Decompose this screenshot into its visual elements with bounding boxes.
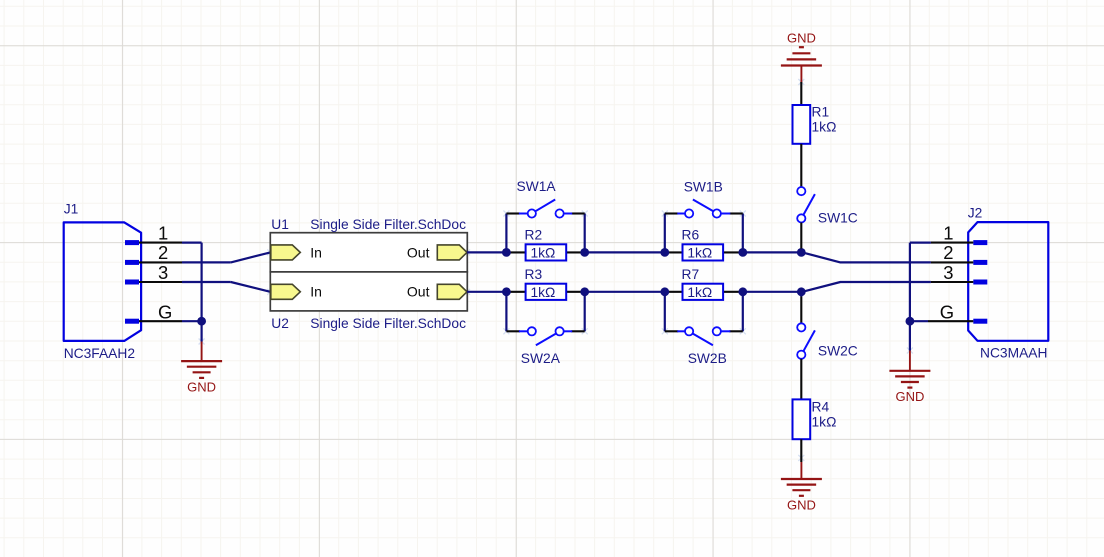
svg-text:In: In (310, 284, 322, 300)
svg-text:1: 1 (158, 222, 168, 243)
ground GND bottom at R4 (781, 462, 822, 512)
svg-text:SW2A: SW2A (521, 351, 561, 366)
svg-text:GND: GND (187, 379, 216, 394)
resistor R3 1k (506, 267, 584, 300)
sheet entry U1 In port (271, 244, 322, 260)
svg-text:1kΩ: 1kΩ (812, 415, 837, 430)
svg-text:1kΩ: 1kΩ (687, 285, 712, 300)
svg-text:U1: U1 (271, 217, 289, 232)
svg-text:R3: R3 (525, 267, 543, 282)
wire SW2B right riser (742, 292, 744, 332)
svg-text:R6: R6 (682, 228, 700, 243)
switch SW2A (506, 327, 584, 366)
junction R2 right (580, 248, 589, 257)
J2 pin G (928, 302, 987, 324)
switch SW2C (797, 297, 858, 359)
svg-text:GND: GND (895, 389, 924, 404)
J1 pin G (125, 302, 182, 324)
connector J1 body (64, 222, 141, 341)
svg-text:G: G (158, 302, 172, 323)
wire row A slant to J2 pin2 (801, 252, 931, 262)
junction R3 right (580, 287, 589, 296)
svg-text:G: G (940, 302, 954, 323)
switch SW1C (797, 187, 858, 249)
svg-text:3: 3 (158, 262, 168, 283)
svg-text:Single Side Filter.SchDoc: Single Side Filter.SchDoc (310, 316, 466, 331)
connector J2 body (968, 222, 1048, 341)
wire J2 ground node down to GND (909, 321, 911, 350)
svg-text:NC3MAAH: NC3MAAH (980, 345, 1047, 360)
J1 pin 1 (125, 222, 182, 245)
junction SW1C node (797, 248, 806, 257)
connection cross marks (199, 79, 913, 461)
svg-text:SW1A: SW1A (517, 179, 557, 194)
J1 pin 3 (125, 262, 182, 285)
svg-text:R1: R1 (812, 105, 830, 120)
svg-text:2: 2 (943, 242, 953, 263)
switch SW1B (665, 179, 743, 217)
wire row B slant to J2 pin3 (801, 282, 931, 292)
J2 pin 3 (931, 262, 987, 285)
svg-text:SW1C: SW1C (818, 211, 858, 226)
svg-text:1kΩ: 1kΩ (687, 246, 712, 261)
junction R7 right (738, 287, 747, 296)
svg-text:GND: GND (787, 31, 816, 46)
svg-text:1kΩ: 1kΩ (812, 120, 837, 135)
svg-text:SW2C: SW2C (818, 344, 858, 359)
svg-text:U2: U2 (271, 316, 289, 331)
wire SW1B right riser (742, 214, 744, 253)
wire J1 pin2 to U1 In (182, 252, 270, 262)
svg-text:Out: Out (407, 284, 430, 300)
sheet symbol U2 Single Side Filter (270, 272, 467, 331)
switch SW2B (665, 327, 743, 366)
wire U1 Out to node (467, 251, 506, 253)
wire row B U2 Out to node (467, 291, 506, 293)
svg-text:J2: J2 (968, 206, 983, 221)
svg-text:1kΩ: 1kΩ (530, 246, 555, 261)
sheet entry U1 Out port (407, 244, 467, 260)
wire SW1A right riser (584, 214, 586, 253)
junction R2 left (502, 248, 511, 257)
sheet symbol U1 Single Side Filter (270, 217, 467, 272)
ground GND top at R1 (781, 31, 822, 82)
svg-text:In: In (310, 244, 322, 260)
svg-text:R2: R2 (525, 228, 543, 243)
wire J1 G stub (182, 320, 202, 322)
wire node to SW2C (800, 292, 802, 297)
wire row A between R2 and R6 (585, 251, 665, 253)
svg-text:Out: Out (407, 244, 430, 260)
wire row A between R6 and SW1C node (743, 251, 802, 253)
svg-text:Single Side Filter.SchDoc: Single Side Filter.SchDoc (310, 217, 466, 232)
wire J1 pin1 to ground bus (182, 243, 202, 322)
svg-text:NC3FAAH2: NC3FAAH2 (64, 346, 135, 361)
wire SW2A left riser (505, 292, 507, 332)
wire SW1B left riser (664, 214, 666, 253)
junction R6 right (738, 248, 747, 257)
J2 pin 1 (931, 222, 987, 245)
resistor R7 1k (665, 267, 743, 300)
switch SW1A (506, 179, 584, 218)
svg-text:R4: R4 (812, 400, 830, 415)
wire row B between R7 and SW2C node (743, 291, 802, 293)
junction R6 left (660, 248, 669, 257)
ground GND at J2 (889, 351, 930, 405)
wire SW1C to node (800, 249, 802, 253)
ground GND at J1 (181, 342, 222, 395)
J1 pin 2 (125, 242, 182, 265)
svg-text:1: 1 (943, 222, 953, 243)
junction J1 ground node (197, 317, 206, 326)
junction R7 left (660, 287, 669, 296)
wire J1 ground node down to GND (201, 321, 203, 341)
wire J2 G stub (910, 320, 928, 322)
resistor R1 1k vertical (793, 82, 837, 187)
svg-text:2: 2 (158, 242, 168, 263)
resistor R6 1k (665, 228, 743, 261)
resistor R2 1k (506, 228, 584, 261)
svg-text:3: 3 (943, 262, 953, 283)
J2 pin 2 (931, 242, 987, 265)
svg-text:SW1B: SW1B (684, 179, 723, 194)
svg-text:SW2B: SW2B (688, 351, 727, 366)
svg-text:J1: J1 (64, 202, 79, 217)
sheet entry U2 In port (271, 284, 322, 300)
wire J1 pin3 to U2 In (182, 282, 270, 292)
wire J2 pin1 to ground bus (910, 243, 931, 322)
wire SW1A left riser (505, 214, 507, 253)
svg-text:GND: GND (787, 497, 816, 512)
svg-text:1kΩ: 1kΩ (530, 285, 555, 300)
junction SW2C node (797, 287, 806, 296)
resistor R4 1k vertical (793, 359, 837, 462)
junction R3 left (502, 287, 511, 296)
wire SW2B left riser (664, 292, 666, 332)
sheet entry U2 Out port (407, 284, 467, 300)
wire SW2A right riser (584, 292, 586, 332)
wire row B between R3 and R7 (585, 291, 665, 293)
junction J2 ground node (906, 317, 915, 326)
svg-text:R7: R7 (682, 267, 700, 282)
